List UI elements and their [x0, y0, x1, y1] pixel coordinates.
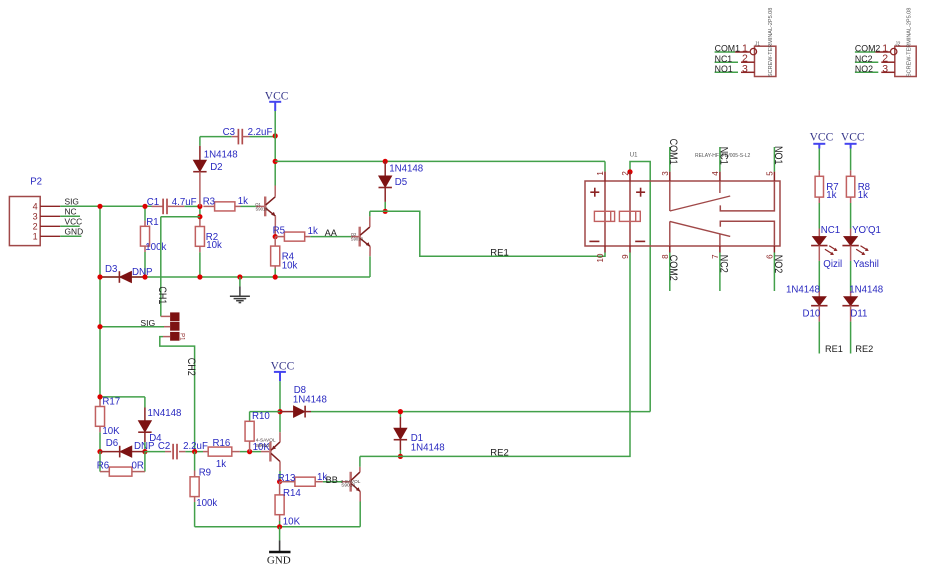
- svg-text:COM2: COM2: [855, 44, 881, 54]
- svg-text:SIG: SIG: [140, 318, 155, 328]
- svg-text:3: 3: [33, 212, 38, 222]
- svg-text:U1: U1: [630, 153, 638, 159]
- junction D1 bottom: [398, 454, 403, 459]
- relay contact NC1 pin 4: [719, 172, 721, 181]
- svg-text:R16: R16: [213, 438, 231, 449]
- wire C1 to node: [184, 205, 200, 207]
- svg-text:VCC: VCC: [265, 91, 289, 103]
- wire relay pin 3 COM1: [669, 147, 671, 172]
- LED NC1: [818, 229, 820, 237]
- wire stub GND from P2 pin 1: [60, 235, 81, 237]
- svg-text:10: 10: [596, 253, 605, 262]
- resistor R4: [274, 237, 276, 247]
- wire Q3 emitter down: [359, 502, 361, 527]
- wire R8 to LED: [850, 203, 852, 229]
- relay contact NC2 pin 7: [719, 246, 721, 253]
- svg-text:C1: C1: [147, 197, 159, 208]
- junction D5 top: [383, 159, 388, 164]
- svg-text:VCC: VCC: [810, 132, 834, 144]
- relay coil 1 pins 1-10: [604, 172, 606, 181]
- junction node C3/R2: [197, 214, 202, 219]
- connector J1 pin 1 circle: [750, 48, 756, 54]
- svg-text:COM1: COM1: [667, 139, 679, 165]
- wire Q4 collector down: [279, 471, 281, 482]
- diode D6: [100, 451, 120, 453]
- junction ground symbol: [237, 274, 242, 279]
- resistor R5: [275, 236, 284, 238]
- transistor Q2 S9013: [351, 236, 359, 238]
- svg-text:D10: D10: [803, 309, 821, 320]
- wire node vertical C1/R3/D2/C3/R2: [199, 206, 201, 219]
- wire R7 to LED: [818, 203, 820, 229]
- svg-text:D2: D2: [210, 162, 222, 173]
- svg-text:1: 1: [596, 171, 605, 176]
- transistor Q3 3-SAVOL S9013: [342, 481, 350, 483]
- svg-text:1N4148: 1N4148: [786, 285, 820, 296]
- svg-text:R1: R1: [146, 217, 158, 228]
- capacitor C1: [152, 205, 164, 207]
- svg-text:NC1: NC1: [717, 147, 729, 165]
- svg-text:1N4148: 1N4148: [411, 443, 445, 454]
- wire NC1 stub: [715, 61, 738, 63]
- wire Q3 collector up to RE2: [359, 456, 361, 466]
- junction R2 bottom: [197, 274, 202, 279]
- svg-text:4: 4: [711, 171, 720, 176]
- wire R3 to Q1 base: [241, 205, 256, 207]
- svg-text:100k: 100k: [145, 242, 166, 253]
- svg-text:NC: NC: [65, 207, 77, 217]
- wire C3 right: [250, 136, 276, 138]
- svg-text:3: 3: [882, 63, 888, 75]
- svg-text:R10: R10: [252, 411, 270, 422]
- resistor R10: [245, 421, 254, 441]
- junction D6 left: [97, 449, 102, 454]
- junction D5 bottom / Q2 collector: [383, 209, 388, 214]
- svg-text:100k: 100k: [196, 498, 217, 509]
- junction node R3/C1/D2: [197, 204, 202, 209]
- svg-text:SIG: SIG: [65, 197, 79, 207]
- svg-text:1: 1: [33, 232, 38, 242]
- svg-text:NO1: NO1: [715, 64, 733, 74]
- wire D5 bottom: [384, 202, 386, 211]
- wire LED to D11: [850, 261, 852, 291]
- wire D1 bottom: [399, 450, 401, 456]
- svg-text:1N4148: 1N4148: [389, 164, 423, 175]
- svg-text:10K: 10K: [283, 517, 301, 528]
- svg-text:1N4148: 1N4148: [148, 408, 182, 419]
- connector P2 pin stubs: [40, 205, 60, 207]
- diode D8 1N4148: [280, 411, 293, 413]
- svg-text:RE1: RE1: [825, 344, 843, 354]
- ground symbol earth: [239, 277, 241, 286]
- wire relay pin 2 feed from D8 node: [630, 162, 650, 412]
- junction D6 right / C2: [142, 449, 147, 454]
- svg-text:R3: R3: [203, 197, 215, 208]
- svg-text:P2: P2: [30, 177, 42, 188]
- svg-text:C2: C2: [158, 441, 170, 452]
- svg-text:Qizil: Qizil: [823, 259, 842, 270]
- svg-text:S9013: S9013: [256, 207, 269, 212]
- diode D5 1N4148: [384, 161, 386, 175]
- wire NC2 stub: [855, 61, 878, 63]
- svg-text:2: 2: [33, 222, 38, 232]
- connector J1 box: [755, 46, 776, 76]
- svg-text:Yashil: Yashil: [853, 259, 879, 270]
- connector J2 pin 1 circle: [891, 48, 897, 54]
- wire CH1 branch horizontal: [161, 216, 200, 218]
- wire D4 bottom: [144, 442, 146, 452]
- svg-text:RE1: RE1: [490, 248, 508, 259]
- LED YO'Q1: [850, 229, 852, 237]
- svg-text:D11: D11: [850, 309, 867, 320]
- wire VCC lower down: [279, 381, 281, 432]
- junction relay pin 2: [627, 169, 632, 174]
- diode D2 1N4148: [199, 146, 201, 160]
- svg-text:NO2: NO2: [855, 64, 873, 74]
- wire VCC to R8: [850, 149, 852, 171]
- wire relay pin 5 NO1: [773, 147, 775, 172]
- wire NO1 stub: [715, 71, 738, 73]
- wire net AA: [310, 236, 351, 238]
- wire stub NC from P2 pin 3: [60, 215, 80, 217]
- svg-text:4: 4: [33, 202, 38, 212]
- diode D4 1N4148 DNP: [144, 408, 146, 421]
- connector J2 box: [895, 46, 916, 76]
- relay coil 2 polarity marks: [636, 191, 645, 193]
- svg-text:R5: R5: [273, 225, 285, 236]
- svg-text:3: 3: [661, 171, 670, 176]
- svg-text:1k: 1k: [216, 459, 226, 470]
- svg-text:GND: GND: [267, 555, 291, 567]
- wire LED to D10: [818, 261, 820, 291]
- relay U1 body: [585, 181, 780, 246]
- junction GND row: [277, 524, 282, 529]
- svg-text:9: 9: [621, 254, 630, 259]
- svg-text:R17: R17: [102, 397, 120, 408]
- svg-text:NC2: NC2: [717, 255, 729, 273]
- wire C3 left vertical: [199, 137, 201, 146]
- svg-text:RE2: RE2: [490, 448, 508, 459]
- wire left bus to R17 node: [100, 396, 145, 398]
- ground symbol GND: [279, 527, 281, 541]
- svg-text:S9013: S9013: [351, 236, 364, 241]
- junction R17 top: [97, 394, 102, 399]
- svg-text:NO2: NO2: [772, 255, 784, 274]
- resistor R1: [144, 221, 146, 227]
- svg-text:C3: C3: [223, 127, 235, 138]
- wire D8 output to relay coil 2: [311, 411, 650, 413]
- junction Q4 collector / R13 / R14: [277, 479, 282, 484]
- wire net BB: [323, 481, 342, 483]
- LED YO'Q1 emission arrows: [861, 246, 868, 251]
- wire stub VCC from P2 pin 2: [60, 225, 79, 227]
- svg-text:NC2: NC2: [855, 54, 873, 64]
- svg-text:1k: 1k: [308, 226, 318, 237]
- wire D10 to RE1: [818, 322, 820, 354]
- wire R17 bottom: [99, 432, 101, 451]
- wire net SIG from P2 pin 4: [60, 205, 151, 207]
- wire net SIG to transformer pin 2: [100, 326, 164, 328]
- svg-text:SCREW-TERMINAL-2P5.08: SCREW-TERMINAL-2P5.08: [768, 8, 774, 77]
- junction VCC wire to relay wire: [273, 159, 278, 164]
- svg-text:10K: 10K: [102, 426, 120, 437]
- wire VCC/Q1-collector to relay pin 1: [275, 160, 605, 162]
- svg-text:S9013: S9013: [341, 483, 355, 489]
- resistor R9: [194, 452, 196, 471]
- svg-text:3: 3: [742, 63, 748, 75]
- wire NO2 stub: [855, 71, 878, 73]
- svg-text:CH2: CH2: [185, 358, 197, 376]
- svg-text:CH1: CH1: [156, 286, 168, 304]
- wire COM2 stub: [855, 51, 876, 53]
- junction R1 top: [142, 204, 147, 209]
- relay coil 2 pins 2-9: [629, 172, 631, 181]
- diode D3 DNP: [100, 276, 119, 278]
- resistor R8: [850, 170, 852, 176]
- diode D1 1N4148: [399, 412, 401, 417]
- wire C2 to CH2 junction: [185, 451, 203, 453]
- junction at SIG column top: [97, 204, 102, 209]
- svg-text:D5: D5: [395, 177, 407, 188]
- junction R4 bottom: [273, 274, 278, 279]
- svg-text:VCC: VCC: [65, 217, 83, 227]
- relay coil 1 polarity marks: [590, 191, 599, 193]
- svg-text:10k: 10k: [282, 261, 298, 272]
- svg-text:1N4148: 1N4148: [293, 395, 327, 406]
- svg-text:D3: D3: [105, 264, 117, 275]
- resistor R16: [203, 451, 208, 453]
- relay contact NO2 pin 6: [773, 246, 775, 253]
- wire relay pin 8 COM2: [669, 253, 671, 292]
- relay contact NO1 pin 5: [773, 172, 775, 181]
- junction D3 anode: [97, 274, 102, 279]
- resistor R7: [818, 170, 820, 176]
- junction VCC/D8/R10/emitter: [277, 409, 282, 414]
- wire VCC to R7: [818, 149, 820, 171]
- svg-text:2: 2: [621, 171, 630, 176]
- wire left vertical bus x=100: [99, 206, 101, 400]
- resistor R13: [280, 481, 295, 483]
- svg-text:COM2: COM2: [667, 255, 679, 281]
- svg-text:COM1: COM1: [715, 44, 741, 54]
- connector P2 box: [9, 197, 40, 246]
- wire net RE1 to relay pin 10: [370, 211, 605, 256]
- transistor Q4 4-SAVOL PNP: [261, 451, 269, 453]
- wire relay pin 6 NO2: [773, 253, 775, 292]
- svg-text:GND: GND: [65, 227, 84, 237]
- resistor R2: [199, 220, 201, 227]
- wire R6 right vertical: [144, 452, 146, 472]
- svg-text:J2: J2: [895, 42, 901, 48]
- svg-text:1k: 1k: [238, 196, 248, 207]
- svg-text:SCREW-TERMINAL-2P5.08: SCREW-TERMINAL-2P5.08: [907, 8, 913, 77]
- junction C3/VCC column: [273, 133, 278, 138]
- capacitor C2: [145, 451, 165, 453]
- wire Q2 collector up: [369, 211, 371, 216]
- wire Q2 emitter down to ground row: [369, 256, 371, 277]
- svg-text:VCC: VCC: [841, 132, 865, 144]
- wire transformer pin 3 to CH2: [160, 337, 195, 452]
- junction Q1 emitter / R5 / R4: [273, 234, 278, 239]
- wire R16 to base node: [240, 451, 261, 453]
- svg-text:NO1: NO1: [772, 146, 784, 165]
- svg-text:4-SAVOL: 4-SAVOL: [256, 438, 276, 444]
- resistor R6 0R: [100, 471, 109, 473]
- svg-text:J1: J1: [755, 42, 761, 48]
- junction CH2 / C2 / R9 / R16: [192, 449, 197, 454]
- svg-text:0R: 0R: [132, 460, 144, 471]
- wire relay pin 4 NC1: [719, 147, 721, 172]
- wire R14 bottom: [279, 521, 281, 527]
- wire R6 left vertical: [99, 452, 101, 472]
- relay contact COM2 pin 8: [669, 246, 671, 253]
- wire R4 bottom: [274, 269, 276, 278]
- junction R10 bottom / base: [247, 449, 252, 454]
- svg-text:NC1: NC1: [715, 54, 733, 64]
- svg-text:1N4148: 1N4148: [849, 285, 883, 296]
- svg-text:DNP: DNP: [132, 267, 152, 278]
- svg-text:R9: R9: [199, 468, 211, 479]
- wire D11 to RE2: [850, 322, 852, 354]
- relay contact COM1 pin 3: [669, 172, 671, 181]
- svg-text:1N4148: 1N4148: [204, 149, 238, 160]
- diode D11 1N4148: [850, 291, 852, 297]
- svg-text:RE2: RE2: [855, 344, 873, 354]
- svg-text:10k: 10k: [206, 240, 222, 251]
- svg-text:1k: 1k: [826, 190, 836, 201]
- svg-text:5: 5: [766, 171, 775, 176]
- svg-text:AA: AA: [325, 228, 338, 238]
- resistor R14: [279, 482, 281, 495]
- resistor R17: [99, 400, 101, 407]
- wire R9 bottom to ground row: [194, 502, 196, 527]
- svg-text:R6: R6: [97, 460, 109, 471]
- junction SIG on left bus: [97, 324, 102, 329]
- wire net RE2: [360, 253, 630, 457]
- wire R10 top link: [250, 411, 280, 413]
- capacitor C3: [200, 136, 232, 138]
- wire R1 top: [144, 206, 146, 220]
- junction D3 cathode side: [142, 274, 147, 279]
- svg-text:D6: D6: [106, 438, 118, 449]
- wire relay pin 7 NC2: [719, 253, 721, 292]
- wire R2 bottom: [199, 252, 201, 277]
- svg-text:BB: BB: [326, 475, 338, 485]
- diode D10 1N4148: [818, 291, 820, 297]
- LED NC1 emission arrows: [829, 246, 836, 251]
- svg-text:S9012: S9012: [256, 443, 270, 449]
- transformer P1 windings: [170, 312, 179, 321]
- wire VCC column down to Q1 collector: [274, 111, 276, 186]
- wire R1 bottom: [144, 252, 146, 277]
- resistor R3: [203, 205, 214, 207]
- svg-text:P1: P1: [179, 333, 185, 341]
- wire CH1 vertical to transformer: [160, 217, 162, 317]
- junction D1 top: [398, 409, 403, 414]
- svg-text:NC1: NC1: [821, 225, 840, 236]
- transistor Q1 S9013: [256, 205, 264, 207]
- wire ground row y=277: [100, 276, 370, 278]
- wire bottom ground row: [195, 526, 361, 528]
- wire COM1 stub: [715, 51, 736, 53]
- svg-text:R14: R14: [283, 488, 301, 499]
- svg-text:1k: 1k: [858, 190, 868, 201]
- svg-text:YO'Q1: YO'Q1: [852, 225, 881, 236]
